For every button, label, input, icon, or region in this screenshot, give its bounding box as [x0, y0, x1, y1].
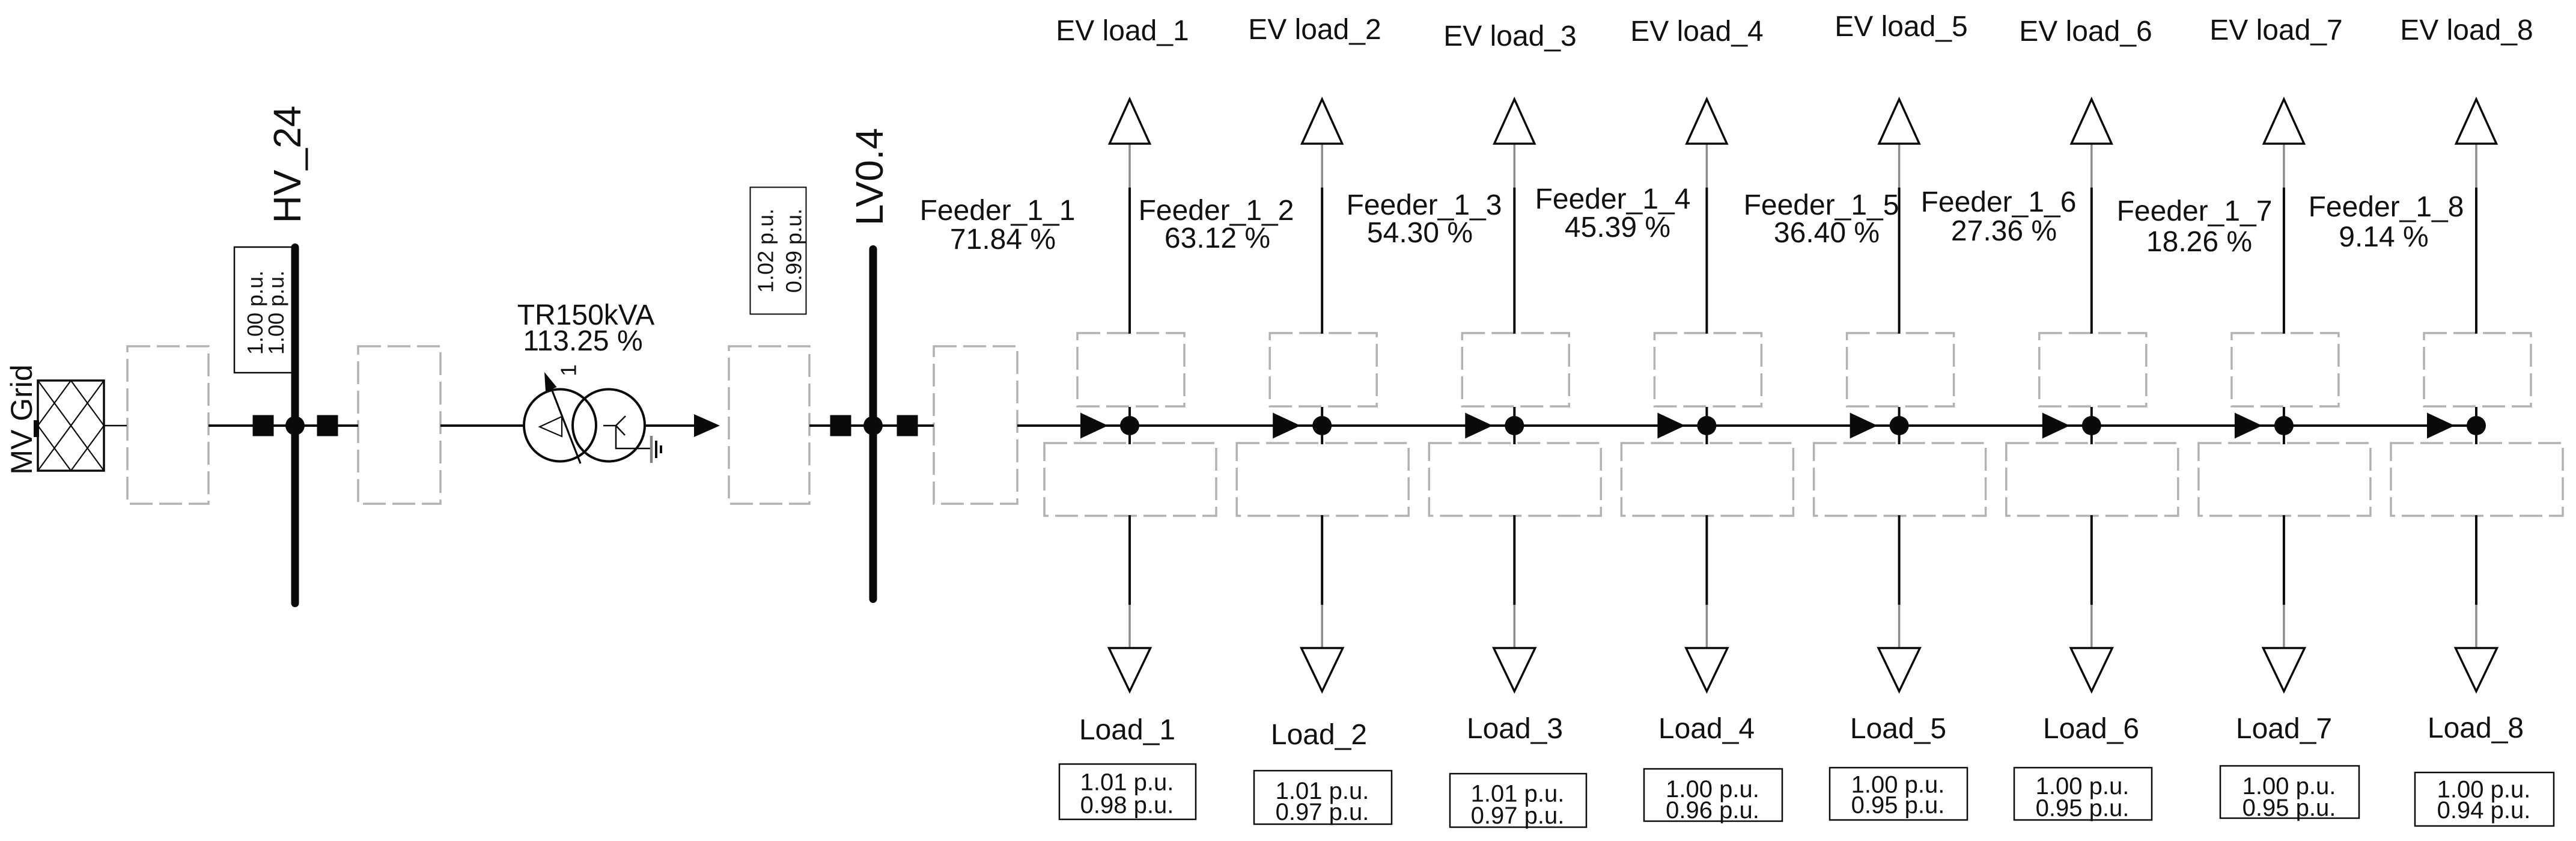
power flow arrow segment 3	[1465, 413, 1493, 439]
result box Load_6 voltages	[2014, 768, 2152, 822]
external grid MV Grid	[34, 381, 104, 471]
svg-text:113.25 %: 113.25 %	[523, 325, 642, 357]
result box Load_1 voltages	[1059, 764, 1196, 819]
svg-text:Load_6: Load_6	[2043, 713, 2139, 745]
EV load_3 symbol (up arrow)	[1494, 99, 1535, 144]
wire: cubicle to bus LV0.4	[809, 424, 870, 427]
node 7 junction	[2274, 416, 2294, 435]
cubicle frame upper node 8	[2424, 333, 2531, 406]
wire: EV load_7 connection	[2283, 144, 2285, 427]
svg-text:HV_24: HV_24	[266, 106, 309, 224]
svg-text:Load_2: Load_2	[1271, 719, 1367, 751]
power flow arrow segment 4	[1657, 413, 1685, 439]
Load_4 symbol (down arrow)	[1686, 648, 1728, 691]
svg-text:EV load_3: EV load_3	[1443, 20, 1577, 52]
svg-text:1.00 p.u.: 1.00 p.u.	[264, 271, 288, 355]
label Feeder_1_7 with loading	[2117, 195, 2273, 258]
svg-text:Load_1: Load_1	[1079, 714, 1175, 746]
cubicle frame upper node 6	[2039, 333, 2146, 406]
cubicle frame 2 (dashed switch placeholder)	[358, 346, 440, 504]
power flow arrow segment 1	[1080, 413, 1108, 439]
Load_6 symbol (down arrow)	[2071, 648, 2112, 691]
svg-text:0.96 p.u.: 0.96 p.u.	[1666, 797, 1759, 824]
wire: EV load_3 connection	[1514, 144, 1516, 427]
svg-text:EV load_4: EV load_4	[1630, 16, 1764, 47]
svg-text:0.94 p.u.: 0.94 p.u.	[2437, 797, 2531, 824]
label Feeder_1_1 with loading	[920, 195, 1076, 255]
svg-text:EV load_5: EV load_5	[1835, 11, 1968, 43]
wire: cubicle to bus HV_24	[209, 424, 292, 427]
svg-text:Load_3: Load_3	[1467, 713, 1563, 745]
wire: EV load_1 connection	[1128, 144, 1131, 427]
EV load_6 symbol (up arrow)	[2071, 99, 2112, 144]
cubicle frame 1 (dashed switch placeholder)	[127, 346, 209, 504]
svg-text:LV0.4: LV0.4	[848, 128, 891, 226]
svg-text:Feeder_1_4: Feeder_1_4	[1535, 183, 1691, 215]
Load_5 symbol (down arrow)	[1878, 648, 1920, 691]
svg-text:9.14 %: 9.14 %	[2339, 221, 2428, 253]
result box Load_4 voltages	[1644, 769, 1782, 824]
power flow arrow segment 7	[2235, 413, 2262, 439]
svg-text:0.95 p.u.: 0.95 p.u.	[1851, 792, 1945, 819]
bus LV0.4	[869, 249, 877, 599]
svg-text:MV Grid: MV Grid	[5, 364, 38, 474]
svg-text:71.84 %: 71.84 %	[950, 224, 1056, 255]
svg-text:Feeder_1_1: Feeder_1_1	[920, 195, 1076, 227]
wire: Load_1 connection	[1128, 426, 1131, 648]
wire: EV load_5 connection	[1898, 144, 1901, 427]
cubicle frame lower node 4	[1621, 443, 1793, 516]
svg-text:0.95 p.u.: 0.95 p.u.	[2243, 795, 2336, 821]
result box LV0.4 voltages	[751, 188, 806, 314]
cubicle frame lower node 1	[1044, 443, 1216, 516]
wire: Load_5 connection	[1898, 426, 1901, 648]
cubicle frame lower node 5	[1814, 443, 1986, 516]
svg-text:0.98 p.u.: 0.98 p.u.	[1080, 792, 1174, 819]
EV load_5 symbol (up arrow)	[1879, 99, 1919, 144]
cubicle frame lower node 8	[2391, 443, 2563, 516]
cubicle frame upper node 1	[1077, 333, 1184, 406]
node junction on HV_24	[285, 416, 305, 435]
wire: Load_2 connection	[1321, 426, 1323, 648]
node 2 junction	[1312, 416, 1332, 435]
Load_8 symbol (down arrow)	[2456, 648, 2497, 691]
cubicle frame lower node 2	[1237, 443, 1408, 516]
svg-text:Load_8: Load_8	[2428, 712, 2524, 744]
EV load_1 symbol (up arrow)	[1110, 99, 1150, 144]
cubicle frame upper node 5	[1847, 333, 1954, 406]
svg-text:Load_7: Load_7	[2236, 713, 2332, 745]
node junction on LV0.4	[863, 416, 883, 435]
breaker HV left	[253, 415, 274, 436]
EV load_7 symbol (up arrow)	[2264, 99, 2304, 144]
node 8 junction	[2467, 416, 2486, 435]
svg-text:0.99 p.u.: 0.99 p.u.	[782, 209, 806, 293]
Load_2 symbol (down arrow)	[1302, 648, 1343, 691]
breaker HV right	[317, 415, 338, 436]
svg-text:EV load_7: EV load_7	[2209, 14, 2343, 46]
svg-text:EV load_8: EV load_8	[2400, 14, 2533, 46]
wire: bus LV0.4 to cubicle	[877, 424, 934, 427]
cubicle frame lower node 7	[2199, 443, 2370, 516]
svg-text:0.97 p.u.: 0.97 p.u.	[1276, 799, 1369, 825]
cubicle frame 4 (dashed switch placeholder)	[934, 346, 1017, 504]
node 4 junction	[1697, 416, 1716, 435]
cubicle frame upper node 3	[1462, 333, 1569, 406]
wire: transformer to arrow	[645, 424, 695, 427]
svg-text:0.95 p.u.: 0.95 p.u.	[2036, 795, 2130, 822]
power flow arrow segment 2	[1273, 413, 1300, 439]
svg-text:0.97 p.u.: 0.97 p.u.	[1471, 803, 1565, 829]
svg-text:Feeder_1_7: Feeder_1_7	[2117, 195, 2273, 227]
breaker LV left	[830, 415, 851, 436]
Load_7 symbol (down arrow)	[2263, 648, 2304, 691]
EV load_8 symbol (up arrow)	[2456, 99, 2497, 144]
svg-text:Feeder_1_8: Feeder_1_8	[2309, 191, 2464, 223]
wire: cubicle to transformer	[440, 424, 525, 427]
result box Load_2 voltages	[1254, 771, 1392, 825]
svg-text:Feeder_1_6: Feeder_1_6	[1921, 186, 2077, 218]
Load_1 symbol (down arrow)	[1109, 648, 1151, 691]
svg-text:1: 1	[556, 364, 581, 376]
svg-text:36.40 %: 36.40 %	[1774, 217, 1880, 249]
transformer TR150kVA	[524, 372, 661, 463]
svg-text:Load_4: Load_4	[1658, 713, 1755, 745]
EV load_2 symbol (up arrow)	[1302, 99, 1342, 144]
svg-text:Load_5: Load_5	[1850, 713, 1946, 745]
wire: Load_3 connection	[1513, 426, 1515, 648]
result box HV_24 voltages	[234, 247, 295, 373]
node 5 junction	[1890, 416, 1909, 435]
wire: EV load_2 connection	[1321, 144, 1323, 427]
cubicle frame lower node 6	[2006, 443, 2178, 516]
svg-text:EV load_2: EV load_2	[1248, 14, 1381, 46]
label Feeder_1_5 with loading	[1744, 189, 1899, 249]
power flow arrow segment 5	[1850, 413, 1878, 439]
power flow arrow segment 8	[2427, 413, 2455, 439]
svg-text:EV load_6: EV load_6	[2019, 16, 2152, 47]
node 1 junction	[1120, 416, 1139, 435]
svg-text:45.39 %: 45.39 %	[1565, 212, 1670, 243]
power flow arrow segment 6	[2042, 413, 2070, 439]
Load_3 symbol (down arrow)	[1494, 648, 1535, 691]
EV load_4 symbol (up arrow)	[1687, 99, 1727, 144]
svg-text:54.30 %: 54.30 %	[1367, 217, 1473, 249]
label Feeder_1_8 with loading	[2309, 191, 2464, 253]
result box Load_7 voltages	[2220, 766, 2359, 821]
label Feeder_1_3 with loading	[1347, 189, 1502, 249]
cubicle frame upper node 4	[1654, 333, 1761, 406]
bus HV_24	[291, 248, 299, 604]
wire: Load_6 connection	[2090, 426, 2093, 648]
cubicle frame 3 (dashed switch placeholder)	[729, 346, 809, 504]
power flow arrow after transformer	[694, 414, 720, 437]
wire: grid to cubicle	[104, 425, 127, 427]
wire: EV load_4 connection	[1706, 144, 1708, 427]
wire: Load_7 connection	[2283, 426, 2285, 648]
node 6 junction	[2082, 416, 2101, 435]
wire: Load_4 connection	[1705, 426, 1708, 648]
result box Load_3 voltages	[1450, 774, 1586, 829]
result box Load_5 voltages	[1830, 768, 1967, 820]
svg-text:27.36 %: 27.36 %	[1951, 215, 2057, 247]
breaker LV right	[897, 415, 918, 436]
wire: EV load_8 connection	[2475, 144, 2477, 427]
svg-text:63.12 %: 63.12 %	[1165, 222, 1270, 254]
wire: EV load_6 connection	[2090, 144, 2093, 427]
cubicle frame upper node 7	[2232, 333, 2339, 406]
svg-text:18.26 %: 18.26 %	[2146, 226, 2252, 258]
cubicle frame upper node 2	[1270, 333, 1377, 406]
cubicle frame lower node 3	[1429, 443, 1601, 516]
label Feeder_1_6 with loading	[1921, 186, 2077, 247]
svg-text:1.02 p.u.: 1.02 p.u.	[754, 209, 778, 293]
label Feeder_1_4 with loading	[1535, 183, 1691, 243]
node 3 junction	[1505, 416, 1524, 435]
wire: bus HV_24 to cubicle	[299, 424, 358, 427]
wire: Load_8 connection	[2475, 426, 2477, 648]
label Feeder_1_2 with loading	[1139, 195, 1294, 254]
svg-text:EV load_1: EV load_1	[1056, 15, 1189, 47]
wire: feeder main line	[1017, 424, 2476, 427]
result box Load_8 voltages	[2415, 772, 2554, 826]
